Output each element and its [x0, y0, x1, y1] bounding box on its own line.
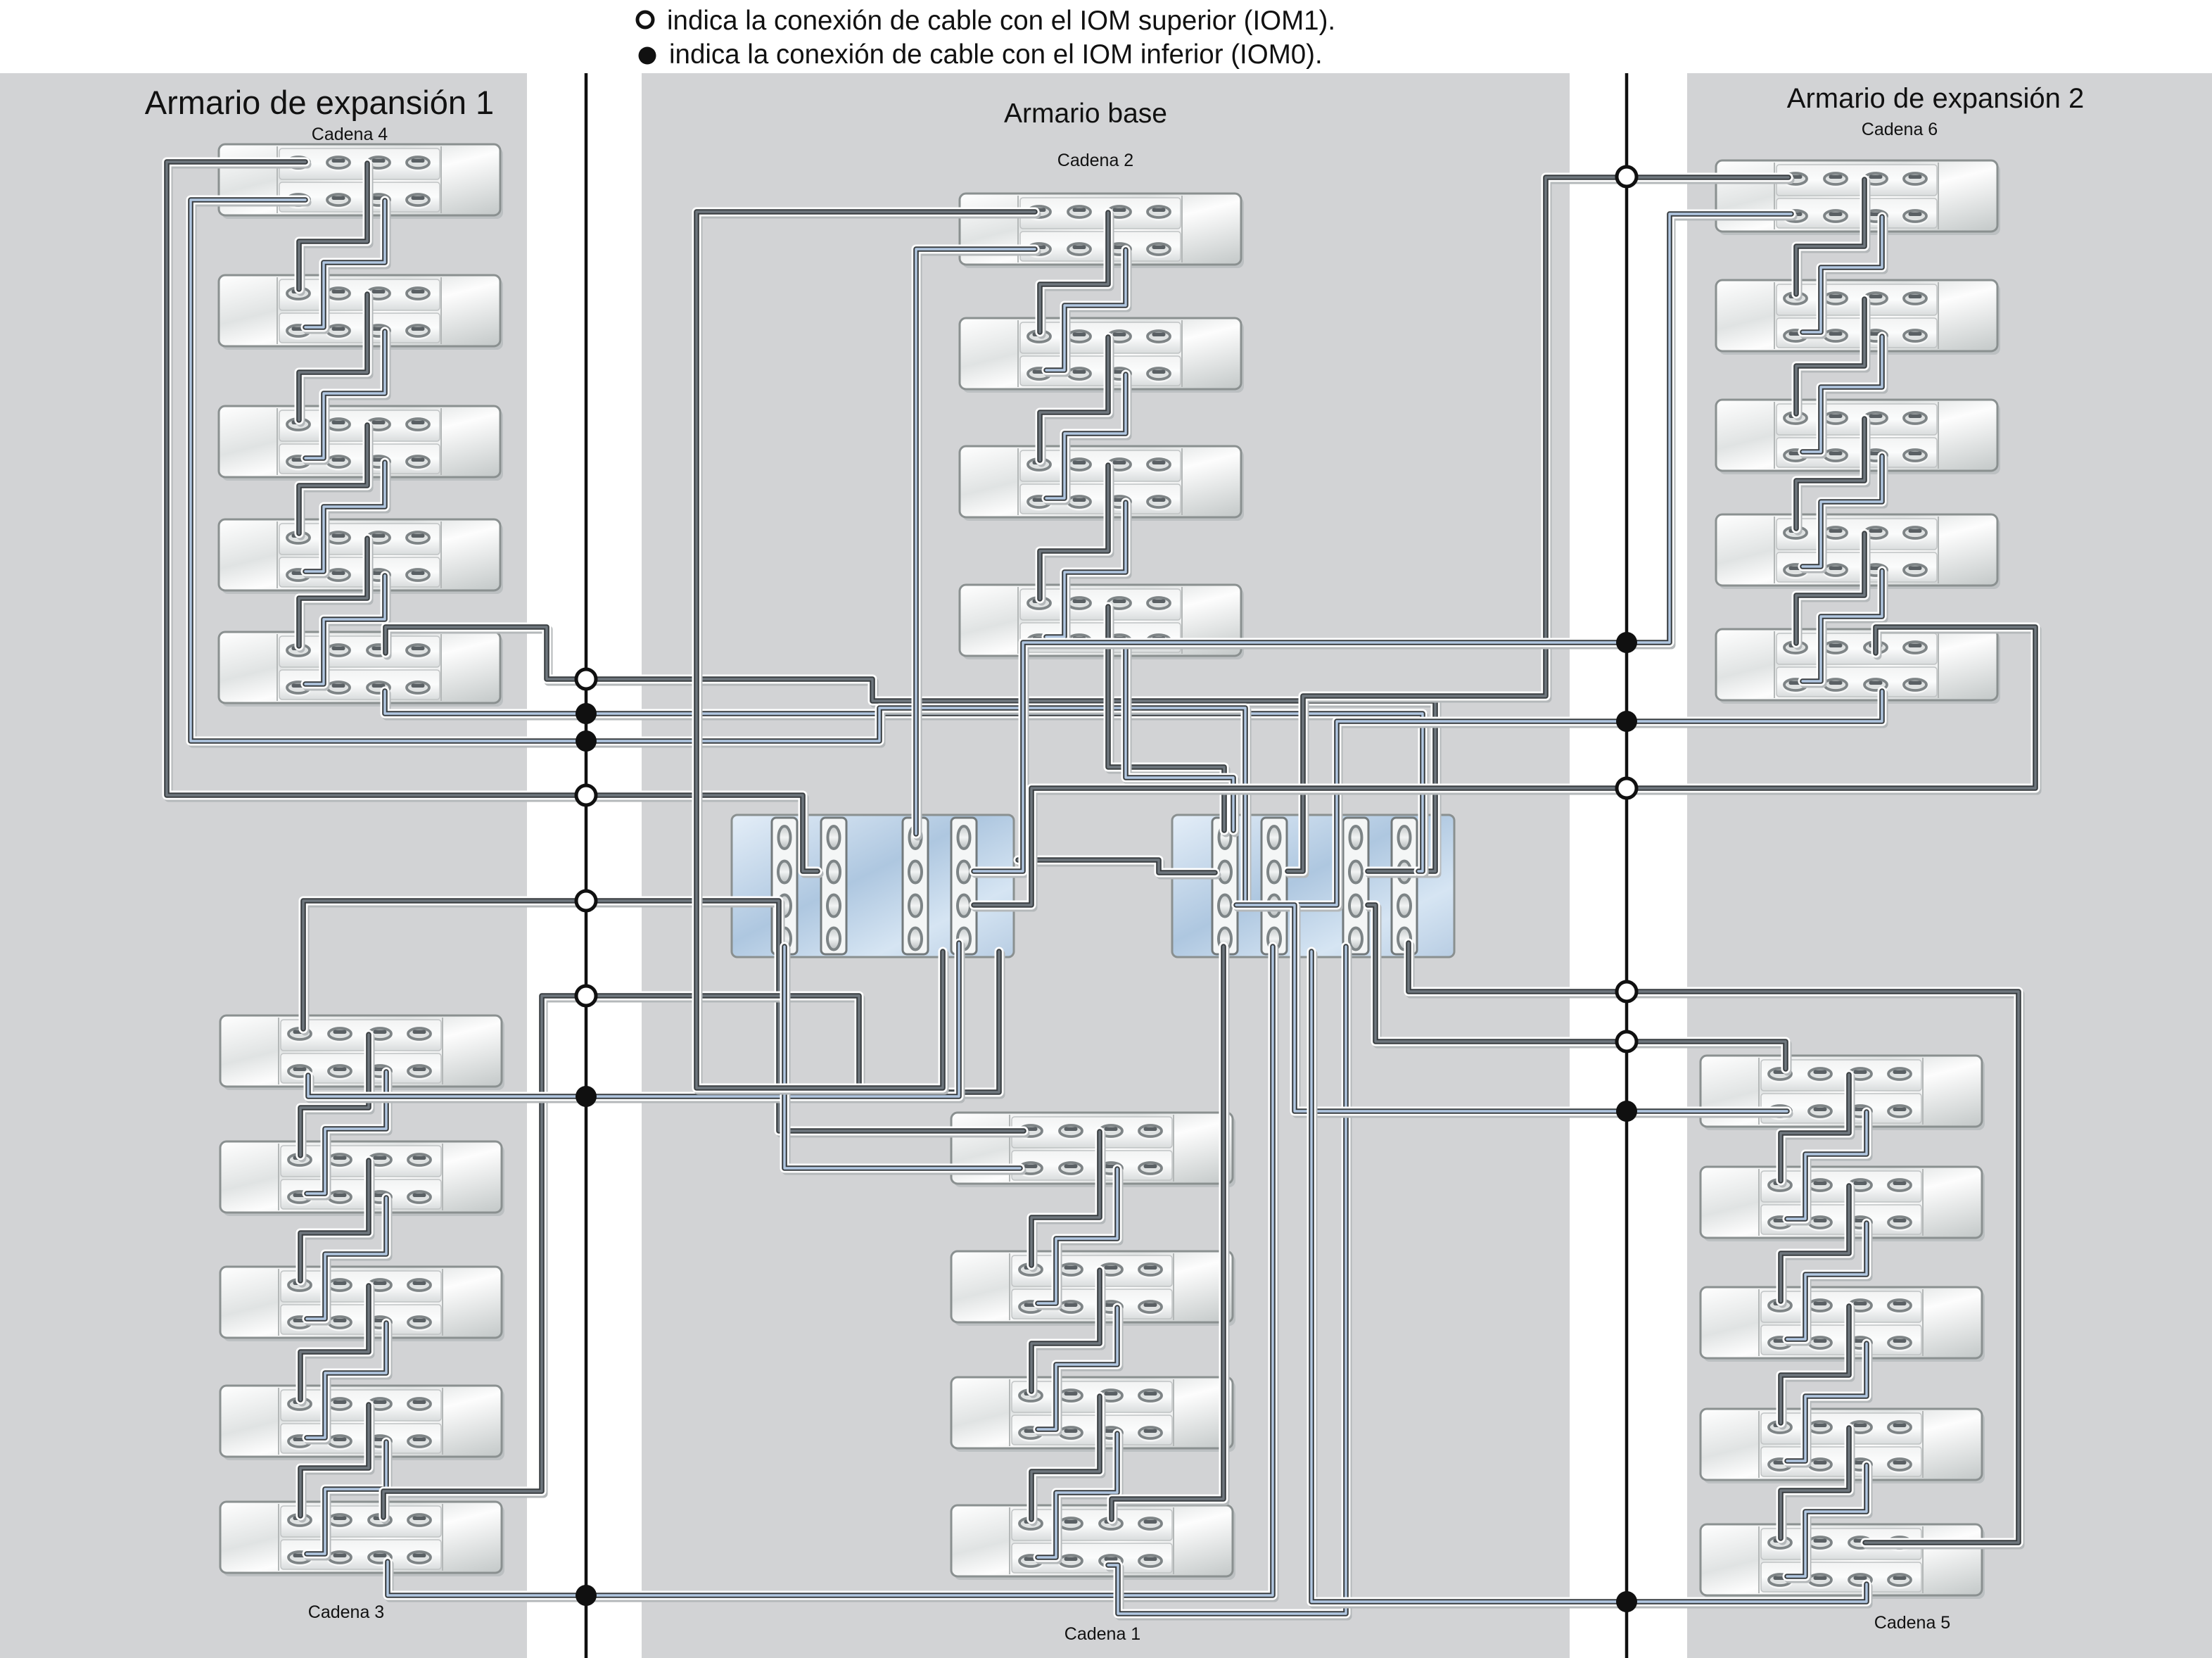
wire C4 chain bottom 4-5: [305, 576, 387, 687]
wire C2 chain top 2-3: [1040, 337, 1110, 463]
controller head 2: [1172, 815, 1454, 957]
wire C6 chain top 3-4: [1796, 419, 1867, 531]
wire C2 chain bottom 3-4: [1046, 502, 1128, 640]
IOM1 connection marker on line 1 at y=1280: [576, 891, 596, 911]
disk shelf C1 shelf 4: [951, 1505, 1235, 1580]
wire C5-S1 IOM1 to head2: [1368, 905, 1788, 1072]
svg-text:Cadena 3: Cadena 3: [308, 1602, 384, 1622]
disk shelf C4 shelf 4: [219, 519, 503, 594]
wire C5 chain bottom 1-2: [1787, 1112, 1869, 1222]
IOM1 connection marker on line 1 at y=1415: [576, 986, 596, 1006]
wire C6-S5 IOM1 to head1: [974, 627, 2038, 908]
wire C6 chain bottom 4-5: [1803, 571, 1884, 684]
wire C2-S4 IOM1 to head2 top: [1108, 607, 1226, 833]
disk shelf C3 shelf 3: [220, 1267, 504, 1341]
wire C6 chain top 2-3: [1796, 299, 1867, 417]
svg-text:Cadena 6: Cadena 6: [1862, 120, 1938, 139]
wire C1 chain bottom 3-4: [1038, 1434, 1119, 1560]
svg-text:indica la conexión de cable co: indica la conexión de cable con el IOM s…: [667, 6, 1335, 36]
disk shelf C4 shelf 3: [219, 406, 503, 481]
wire C5-S5 IOM1 to head2: [1409, 943, 2021, 1545]
disk shelf C6 shelf 4: [1716, 514, 2000, 589]
wire C4-S1 IOM0 to head1: [191, 200, 1260, 908]
wire C5 chain top 4-5: [1781, 1428, 1851, 1541]
wire C4 chain top 3-4: [299, 425, 369, 536]
svg-text:Cadena 5: Cadena 5: [1874, 1613, 1950, 1633]
wire head2 to C1-S4 IOM1: [1112, 947, 1226, 1522]
wire C6 chain bottom 3-4: [1803, 456, 1884, 569]
wire C4 chain bottom 2-3: [305, 331, 387, 461]
rack boundary line 2: [1625, 73, 1629, 1658]
disk shelf C5 shelf 1: [1701, 1056, 1985, 1130]
wire C4-S5 IOM0 to head2: [385, 691, 1425, 874]
wire C4-S5 IOM1 to head2: [386, 627, 1437, 874]
svg-text:Cadena 2: Cadena 2: [1057, 151, 1133, 170]
wire C6-S5 IOM0 to head2: [1288, 691, 1884, 908]
controller head 1: [732, 815, 1014, 957]
wire C2-S1 IOM0 to head1: [916, 249, 1037, 837]
disk shelf C6 shelf 3: [1716, 400, 2000, 474]
disk shelf C2 shelf 4: [960, 585, 1244, 659]
wire C6 chain top 1-2: [1796, 179, 1867, 297]
svg-text:Armario de expansión 2: Armario de expansión 2: [1787, 83, 2084, 114]
disk shelf C1 shelf 1: [951, 1113, 1235, 1187]
wire C1 chain bottom 1-2: [1038, 1169, 1119, 1306]
svg-text:Cadena 1: Cadena 1: [1064, 1624, 1140, 1644]
wire C3-S1 IOM0 to head1: [308, 943, 961, 1099]
wire C2 chain bottom 1-2: [1046, 250, 1128, 373]
wire C6-S1 IOM0 to head1: [974, 214, 1793, 874]
IOM1 connection marker on line 1 at y=1130: [576, 785, 596, 805]
disk shelf C3 shelf 5: [220, 1502, 504, 1576]
wire C4 chain top 2-3: [299, 294, 369, 423]
disk shelf C6 shelf 2: [1716, 280, 2000, 355]
wire C1 chain top 1-2: [1031, 1132, 1102, 1268]
disk shelf C4 shelf 2: [219, 275, 503, 350]
wire C2-S4 IOM0 to head2 top: [1126, 644, 1235, 833]
wire C5 chain top 3-4: [1781, 1306, 1851, 1426]
IOM1 connection marker on line 2 at y=1480: [1617, 1032, 1636, 1051]
IOM1 connection marker on line 1 at y=965: [576, 669, 596, 689]
wire C4 chain top 1-2: [299, 163, 369, 292]
IOM0 connection marker on line 2 at y=1025: [1616, 711, 1637, 732]
wire C5 chain bottom 3-4: [1787, 1343, 1869, 1464]
disk shelf C1 shelf 3: [951, 1377, 1235, 1452]
svg-text:indica la conexión de cable co: indica la conexión de cable con el IOM i…: [669, 39, 1323, 70]
IOM0 connection marker on line 1 at y=2267: [576, 1585, 597, 1606]
legend IOM1 symbol: [637, 12, 653, 27]
wire C5 chain bottom 2-3: [1787, 1223, 1869, 1342]
disk shelf C6 shelf 1: [1716, 160, 2000, 235]
disk shelf C3 shelf 2: [220, 1141, 504, 1216]
wire head2 to C1-S4 IOM0: [1108, 947, 1348, 1616]
wire C4 chain bottom 1-2: [305, 201, 387, 330]
wire C4-S1 IOM1 to head1: [167, 162, 820, 874]
wire C3 chain bottom 1-2: [307, 1072, 388, 1196]
disk shelf C5 shelf 5: [1701, 1524, 1985, 1599]
wire C2 chain top 1-2: [1040, 213, 1110, 335]
wire head1 to head2 link: [1018, 860, 1217, 875]
IOM0 connection marker on line 1 at y=1014: [576, 703, 597, 724]
IOM0 connection marker on line 1 at y=1558: [576, 1086, 597, 1107]
IOM1 connection marker on line 2 at y=251: [1617, 167, 1636, 186]
disk shelf C4 shelf 5: [219, 632, 503, 707]
wire C3 chain top 1-2: [300, 1034, 371, 1158]
wire C5-S1 IOM0 to head2: [1236, 905, 1789, 1114]
disk shelf C5 shelf 3: [1701, 1287, 1985, 1362]
disk shelf C2 shelf 3: [960, 446, 1244, 521]
wire C5 chain top 2-3: [1781, 1186, 1851, 1304]
disk shelf C4 shelf 1: [219, 144, 503, 219]
wire C6 chain bottom 1-2: [1803, 217, 1884, 335]
disk shelf C3 shelf 4: [220, 1386, 504, 1460]
disk shelf C5 shelf 4: [1701, 1409, 1985, 1483]
wire C1 chain top 3-4: [1031, 1396, 1102, 1522]
IOM1 connection marker on line 2 at y=1120: [1617, 778, 1636, 798]
disk shelf C5 shelf 2: [1701, 1167, 1985, 1241]
disk shelf C2 shelf 2: [960, 318, 1244, 393]
wire C1 chain top 2-3: [1031, 1270, 1102, 1394]
wire C2-S1 IOM1 to head1: [697, 212, 1037, 1091]
rack boundary line 1: [585, 73, 588, 1658]
IOM0 connection marker on line 2 at y=1579: [1616, 1101, 1637, 1122]
IOM0 connection marker on line 2 at y=2276: [1616, 1591, 1637, 1612]
wire C3 chain bottom 4-5: [307, 1442, 388, 1557]
rack panel: Armario de expansion 1: [0, 73, 527, 1658]
legend IOM0 symbol: [639, 47, 656, 65]
wire C3-S5 IOM1 to head1: [383, 951, 1001, 1520]
disk shelf C3 shelf 1: [220, 1015, 504, 1090]
disk shelf C1 shelf 2: [951, 1251, 1235, 1326]
wire C6-S1 IOM1 to head2: [1288, 177, 1791, 874]
IOM0 connection marker on line 2 at y=913: [1616, 632, 1637, 653]
svg-text:Cadena 4: Cadena 4: [312, 125, 388, 144]
wire C5 chain top 1-2: [1781, 1075, 1851, 1184]
IOM1 connection marker on line 2 at y=1409: [1617, 982, 1636, 1001]
wire C3 chain top 2-3: [300, 1160, 371, 1284]
wire head1 to C1-S1 IOM0: [784, 947, 1022, 1171]
wire C2 chain bottom 2-3: [1046, 374, 1128, 501]
wire C6 chain bottom 2-3: [1803, 336, 1884, 455]
disk shelf C2 shelf 1: [960, 194, 1244, 268]
svg-text:Armario de expansión 1: Armario de expansión 1: [145, 84, 494, 121]
wire C6 chain top 4-5: [1796, 533, 1867, 646]
wire C3-S5 IOM0 to head2: [388, 947, 1275, 1598]
wire C3 chain top 3-4: [300, 1286, 371, 1403]
svg-text:Armario base: Armario base: [1004, 99, 1167, 129]
wire C4 chain bottom 3-4: [305, 462, 387, 574]
IOM0 connection marker on line 1 at y=1053: [576, 730, 597, 752]
wire C5 chain bottom 4-5: [1787, 1465, 1869, 1579]
disk shelf C6 shelf 5: [1716, 629, 2000, 704]
rack panel: Armario base: [642, 73, 1570, 1658]
wire C5-S5 IOM0 to head2: [1311, 951, 1869, 1605]
wire C3 chain bottom 3-4: [307, 1323, 388, 1441]
wire C3-S1 IOM1 to head2: [303, 901, 1026, 1134]
wire C2 chain top 3-4: [1040, 465, 1110, 602]
wire C4 chain top 4-5: [299, 538, 369, 649]
wire C1 chain bottom 2-3: [1038, 1308, 1119, 1432]
rack panel: Armario de expansion 2: [1687, 73, 2212, 1658]
wire C3 chain bottom 2-3: [307, 1198, 388, 1322]
wire C3 chain top 4-5: [300, 1405, 371, 1519]
